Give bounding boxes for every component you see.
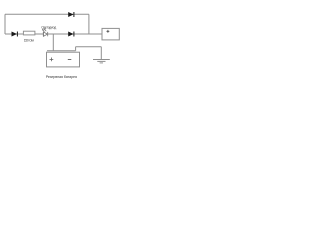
label plus of B1 [50,58,54,62]
wire ground drop [100,47,102,60]
svg-text:Резервная батарея: Резервная батарея [46,75,77,79]
label Svetodiod [41,25,56,29]
diode D2 (top) [68,12,74,17]
wire bus above battery [47,50,76,52]
wire to ground horizontal [76,46,102,48]
diode D3 (middle) [68,32,74,37]
label minus of B1 [68,59,72,61]
label Rezervnaya batareya [46,75,77,79]
label 150 Om [24,39,35,43]
box power supply U1 [102,28,119,40]
wire main row [5,33,102,35]
diode D1 [12,32,18,37]
wire up from battery bus [75,47,77,51]
svg-text:Светодиод: Светодиод [41,25,56,29]
wire right vertical from top row down to main row [88,14,90,34]
wire top-left vertical [4,14,6,34]
label plus of U1 [107,30,110,33]
wire top horizontal [5,13,89,15]
LED emission arrows [42,29,46,32]
LED VD1 [43,32,47,36]
battery box B1 [47,52,80,67]
svg-text:150 Ом: 150 Ом [24,39,35,43]
ground symbol [93,60,110,63]
wire junction down to battery [52,34,54,51]
resistor R1 [23,31,35,35]
